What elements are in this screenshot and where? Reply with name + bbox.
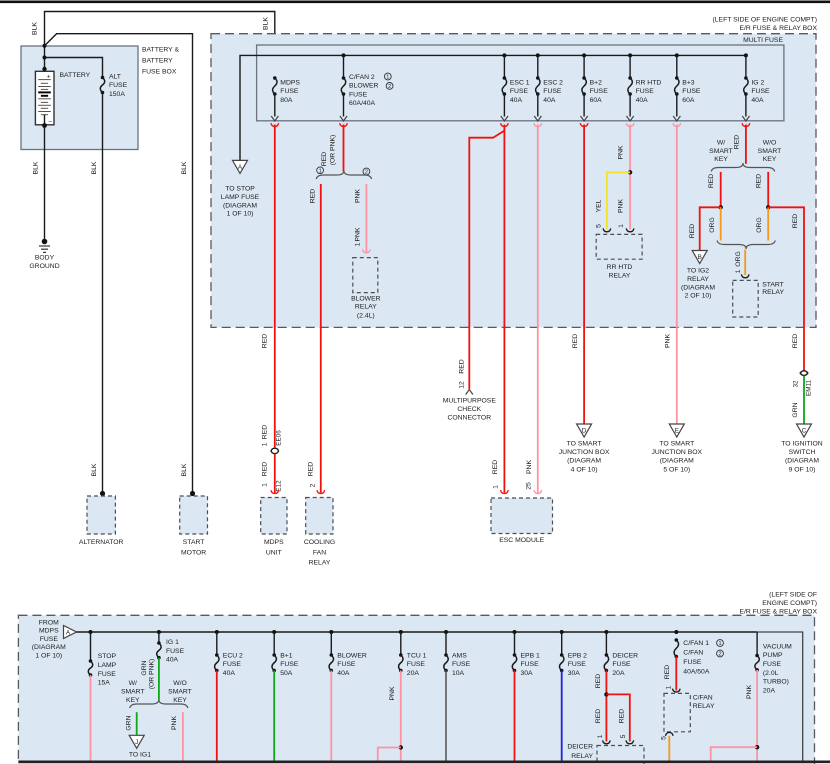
svg-text:150A: 150A — [109, 91, 125, 98]
svg-text:FUSE: FUSE — [683, 659, 702, 666]
svg-text:START: START — [762, 281, 784, 288]
svg-text:C: C — [802, 428, 807, 435]
svg-text:GRN: GRN — [126, 715, 133, 730]
wire RED: deicer fuse to deicer relay — [605, 671, 607, 742]
svg-text:KEY: KEY — [763, 156, 777, 163]
svg-text:ESC 1: ESC 1 — [510, 80, 530, 87]
svg-text:C/FAN: C/FAN — [693, 695, 713, 702]
svg-text:LAMP FUSE: LAMP FUSE — [221, 194, 260, 201]
box: DEICER RELAY — [597, 746, 644, 764]
svg-text:E/R FUSE & RELAY BOX: E/R FUSE & RELAY BOX — [739, 25, 817, 32]
svg-text:5 OF 10): 5 OF 10) — [663, 466, 690, 473]
svg-text:FROM: FROM — [39, 620, 59, 627]
svg-text:(DIAGRAM: (DIAGRAM — [567, 458, 601, 465]
svg-text:2: 2 — [310, 483, 317, 487]
svg-text:ALT: ALT — [109, 74, 121, 81]
wire ORG: w/o smart key to start relay — [767, 207, 769, 240]
fuse: B+3 FUSE 60A — [676, 55, 678, 78]
svg-text:GROUND: GROUND — [29, 263, 59, 270]
wire PNK: w/o smart key — [182, 712, 184, 761]
fuse: TCU 1 FUSE 20A — [400, 632, 402, 655]
connector A: to stop lamp fuse — [233, 160, 248, 173]
wire RED: to IG2 relay — [700, 207, 721, 250]
svg-text:2: 2 — [718, 652, 721, 658]
svg-text:SMART: SMART — [709, 148, 733, 155]
svg-text:40A: 40A — [543, 97, 556, 104]
box: COOLING FAN RELAY — [306, 498, 333, 535]
svg-text:W/O: W/O — [763, 140, 777, 147]
connector E: to smart junction box — [669, 424, 684, 437]
svg-text:FUSE: FUSE — [763, 661, 782, 668]
svg-text:C/FAN 2: C/FAN 2 — [349, 74, 375, 81]
svg-text:1: 1 — [493, 485, 500, 489]
svg-text:1: 1 — [735, 269, 742, 273]
connector D: to smart junction box — [577, 424, 592, 437]
svg-text:ESC MODULE: ESC MODULE — [499, 537, 544, 544]
svg-text:BLK: BLK — [181, 161, 188, 174]
svg-text:TO IG2: TO IG2 — [687, 268, 709, 275]
svg-text:BATTERY &: BATTERY & — [142, 47, 179, 54]
svg-text:TO STOP: TO STOP — [225, 186, 255, 193]
wire: bottom border line — [18, 760, 830, 763]
svg-text:FUSE: FUSE — [751, 88, 770, 95]
wire PNK: RR HTD fuse to relay — [629, 125, 631, 230]
svg-text:ORG: ORG — [709, 217, 716, 232]
wire RED: w/ smart key branch — [720, 172, 722, 207]
svg-text:FUSE: FUSE — [452, 661, 471, 668]
svg-text:START: START — [183, 539, 205, 546]
fuse: MDPS FUSE 80A — [273, 76, 277, 80]
fuse: AMS FUSE 10A — [445, 632, 447, 655]
wire BLK: battery feed to multifuse — [45, 12, 275, 79]
box: E/R fuse & relay box (bottom) — [18, 615, 814, 764]
fuse: DEICER FUSE 20A — [605, 632, 607, 655]
label: C/FAN 2 circled options — [384, 73, 391, 80]
svg-text:FUSE: FUSE — [682, 88, 701, 95]
svg-text:(2.0L: (2.0L — [763, 670, 779, 677]
svg-text:(LEFT SIDE OF: (LEFT SIDE OF — [769, 592, 817, 599]
fuse: ESC 2 FUSE 40A — [537, 55, 539, 78]
box: START RELAY — [733, 280, 759, 317]
svg-text:FAN: FAN — [313, 549, 326, 556]
svg-text:EE06: EE06 — [276, 430, 283, 446]
box: VACUUM PUMP FUSE (2.0L TURBO) — [757, 632, 803, 762]
svg-text:RED: RED — [492, 460, 499, 474]
box: RR HTD RELAY — [596, 234, 642, 259]
wire RED: branch 1 to cooling fan relay — [320, 184, 322, 493]
svg-text:ORG: ORG — [756, 217, 763, 232]
fuse: BLOWER FUSE 40A — [330, 632, 332, 655]
svg-text:(DIAGRAM: (DIAGRAM — [32, 644, 66, 651]
svg-text:TO IGNITION: TO IGNITION — [781, 440, 823, 447]
svg-text:1: 1 — [597, 734, 604, 738]
svg-text:MDPS: MDPS — [264, 539, 284, 546]
wire RED: to ignition switch EM11 — [768, 207, 804, 370]
svg-text:1: 1 — [718, 641, 721, 647]
svg-text:1: 1 — [262, 442, 269, 446]
svg-text:W/: W/ — [129, 680, 137, 687]
svg-text:LAMP: LAMP — [98, 662, 117, 669]
svg-text:RED: RED — [262, 425, 269, 439]
svg-text:MULTI FUSE: MULTI FUSE — [743, 37, 783, 44]
box: MULTI FUSE — [257, 45, 784, 121]
svg-text:BLK: BLK — [32, 22, 39, 35]
svg-text:RED: RED — [595, 709, 602, 723]
svg-text:COOLING: COOLING — [304, 539, 335, 546]
svg-text:FUSE: FUSE — [590, 88, 609, 95]
svg-text:30A: 30A — [568, 670, 581, 677]
svg-text:(OR PNK): (OR PNK) — [330, 135, 337, 166]
wire GRN: to ignition switch — [803, 376, 805, 424]
svg-text:50A: 50A — [280, 670, 293, 677]
svg-text:PNK: PNK — [355, 227, 362, 241]
svg-text:5: 5 — [595, 224, 602, 228]
svg-text:FUSE: FUSE — [337, 661, 356, 668]
fuse: C/FAN 1 C/FAN FUSE 40A/50A — [675, 638, 679, 642]
svg-text:20A: 20A — [407, 670, 420, 677]
svg-text:KEY: KEY — [126, 697, 140, 704]
svg-text:1: 1 — [386, 75, 389, 81]
svg-text:20A: 20A — [763, 687, 776, 694]
svg-text:FUSE: FUSE — [98, 671, 117, 678]
svg-text:PNK: PNK — [618, 145, 625, 159]
svg-text:9 OF 10): 9 OF 10) — [789, 466, 816, 473]
wire GRN: IG1 smart key split — [158, 658, 160, 700]
svg-text:RELAY: RELAY — [687, 276, 709, 283]
svg-text:1: 1 — [319, 168, 322, 174]
box: BLOWER RELAY (2.4L) — [353, 258, 378, 293]
wire RED: c/fan fuse to c/fan relay — [675, 657, 677, 691]
svg-text:(DIAGRAM: (DIAGRAM — [223, 202, 257, 209]
wire RED: w/o smart key branch — [767, 172, 769, 207]
svg-text:CHECK: CHECK — [457, 406, 481, 413]
svg-text:STOP: STOP — [98, 653, 117, 660]
svg-text:BLK: BLK — [33, 161, 40, 174]
svg-text:RED: RED — [792, 214, 799, 228]
svg-text:PNK: PNK — [526, 460, 533, 474]
svg-text:PNK: PNK — [746, 685, 753, 699]
svg-text:(2.4L): (2.4L) — [357, 312, 375, 319]
svg-text:PUMP: PUMP — [763, 652, 783, 659]
svg-text:FUSE: FUSE — [280, 661, 299, 668]
svg-text:EM11: EM11 — [806, 380, 813, 396]
svg-text:RED: RED — [321, 152, 328, 166]
svg-text:1: 1 — [355, 242, 362, 246]
wire: top border line — [0, 0, 830, 3]
svg-text:FUSE: FUSE — [510, 88, 529, 95]
svg-text:BLOWER: BLOWER — [349, 83, 379, 90]
svg-text:RED: RED — [595, 674, 602, 688]
connector J: to IG1 — [129, 735, 144, 748]
svg-text:IG 1: IG 1 — [166, 639, 179, 646]
svg-text:2: 2 — [388, 84, 391, 90]
svg-text:40A: 40A — [510, 97, 523, 104]
svg-text:5: 5 — [620, 734, 627, 738]
svg-text:IG 2: IG 2 — [751, 80, 764, 87]
box: ALTERNATOR — [87, 496, 115, 534]
svg-text:KEY: KEY — [173, 697, 187, 704]
svg-text:W/: W/ — [717, 140, 725, 147]
svg-text:MOTOR: MOTOR — [181, 549, 206, 556]
svg-text:MDPS: MDPS — [39, 628, 59, 635]
fuse: IG 2 FUSE 40A — [744, 76, 748, 80]
svg-text:TO IG1: TO IG1 — [129, 751, 151, 758]
svg-text:GRN: GRN — [141, 660, 148, 675]
svg-text:JUNCTION BOX: JUNCTION BOX — [559, 449, 610, 456]
wire GRN: to IG1 — [136, 712, 138, 735]
wire RED: C/FAN2 fuse with split — [343, 125, 345, 172]
svg-text:FUSE: FUSE — [521, 661, 540, 668]
svg-text:RELAY: RELAY — [355, 304, 377, 311]
svg-text:E/R FUSE & RELAY BOX: E/R FUSE & RELAY BOX — [739, 609, 817, 616]
svg-text:32: 32 — [793, 380, 800, 388]
svg-text:60A: 60A — [590, 97, 603, 104]
svg-text:BODY: BODY — [35, 255, 55, 262]
svg-text:RED: RED — [689, 224, 696, 238]
svg-text:12: 12 — [459, 381, 466, 389]
svg-text:(OR PNK): (OR PNK) — [148, 659, 155, 690]
svg-text:RELAY: RELAY — [571, 753, 593, 760]
svg-text:1 OF 10): 1 OF 10) — [35, 652, 62, 659]
svg-text:B+1: B+1 — [280, 653, 293, 660]
fuse: EPB 2 FUSE 30A — [561, 632, 563, 655]
svg-text:1: 1 — [665, 685, 672, 689]
svg-text:10A: 10A — [452, 670, 465, 677]
wire PNK: branch 2 to blower relay — [365, 184, 367, 252]
svg-text:MDPS: MDPS — [280, 80, 300, 87]
connector B: to IG2 relay — [692, 251, 707, 264]
connector EE06 in-line — [271, 448, 279, 451]
svg-text:RED: RED — [310, 189, 317, 203]
box: C/FAN RELAY — [664, 693, 690, 731]
svg-text:PNK: PNK — [665, 334, 672, 348]
wire RED: IG2 fuse smart key split — [745, 125, 747, 164]
svg-text:SMART: SMART — [121, 689, 145, 696]
wire: multifuse bus — [240, 55, 746, 160]
svg-text:B+2: B+2 — [590, 80, 603, 87]
svg-text:J: J — [135, 739, 138, 746]
svg-text:DEICER: DEICER — [567, 744, 593, 751]
svg-text:RED: RED — [708, 174, 715, 188]
wire PNK: B+3 fuse to smart junction box — [676, 125, 678, 425]
svg-text:RELAY: RELAY — [693, 703, 715, 710]
svg-text:FUSE: FUSE — [349, 91, 368, 98]
svg-text:B: B — [698, 254, 702, 261]
svg-text:ESC 2: ESC 2 — [543, 80, 563, 87]
svg-text:C/FAN: C/FAN — [683, 650, 703, 657]
svg-text:TO SMART: TO SMART — [659, 440, 694, 447]
wire: bottom bus — [77, 631, 758, 633]
svg-text:PNK: PNK — [171, 716, 178, 730]
ground: body ground — [42, 239, 48, 245]
svg-text:FUSE: FUSE — [109, 82, 128, 89]
wire ORG: merged start relay feed — [717, 241, 775, 250]
svg-text:W/O: W/O — [173, 680, 187, 687]
svg-text:AMS: AMS — [452, 653, 467, 660]
svg-text:RED: RED — [792, 334, 799, 348]
wire BLK: battery to ALT fuse and alternator — [45, 58, 103, 78]
svg-text:YEL: YEL — [595, 199, 602, 212]
svg-text:RED: RED — [618, 709, 625, 723]
svg-text:(DIAGRAM: (DIAGRAM — [785, 458, 819, 465]
svg-text:BLK: BLK — [91, 463, 98, 476]
svg-text:−: − — [48, 118, 52, 125]
svg-text:MULTIPURPOSE: MULTIPURPOSE — [443, 398, 497, 405]
fuse: ESC 1 FUSE 40A — [503, 55, 505, 78]
svg-text:BLOWER: BLOWER — [351, 295, 381, 302]
svg-text:1 OF 10): 1 OF 10) — [227, 211, 254, 218]
wire RED: B+2 fuse to smart junction box — [583, 125, 585, 425]
svg-text:(LEFT SIDE OF ENGINE COMPT): (LEFT SIDE OF ENGINE COMPT) — [713, 16, 817, 23]
svg-text:FUSE BOX: FUSE BOX — [142, 69, 177, 76]
fuse: VACUUM PUMP FUSE wire PNK — [756, 632, 758, 656]
svg-text:BLOWER: BLOWER — [337, 653, 367, 660]
svg-text:BATTERY: BATTERY — [142, 58, 173, 65]
svg-text:TURBO): TURBO) — [763, 679, 789, 686]
svg-text:RED: RED — [734, 135, 741, 149]
svg-text:FUSE: FUSE — [612, 661, 631, 668]
svg-text:RED: RED — [664, 665, 671, 679]
svg-text:1: 1 — [262, 483, 269, 487]
svg-text:40A: 40A — [337, 670, 350, 677]
wire BLK: battery to start motor — [45, 34, 193, 494]
svg-text:TO SMART: TO SMART — [567, 440, 602, 447]
svg-text:PNK: PNK — [355, 189, 362, 203]
fuse: C/FAN 2 BLOWER FUSE 60A/40A — [343, 55, 345, 78]
svg-text:20A: 20A — [612, 670, 625, 677]
svg-text:TCU 1: TCU 1 — [407, 653, 427, 660]
svg-text:ALTERNATOR: ALTERNATOR — [79, 539, 124, 546]
svg-text:60A/40A: 60A/40A — [349, 100, 376, 107]
svg-text:25: 25 — [526, 482, 533, 490]
svg-text:E: E — [675, 428, 679, 435]
svg-text:15A: 15A — [98, 680, 111, 687]
svg-text:UNIT: UNIT — [266, 549, 282, 556]
svg-text:RELAY: RELAY — [762, 289, 784, 296]
fuse: B+2 FUSE 60A — [583, 55, 585, 78]
svg-text:FUSE: FUSE — [568, 661, 587, 668]
fuse: IG 1 FUSE 40A — [158, 632, 160, 643]
connector C: to ignition switch — [797, 424, 812, 437]
svg-text:FUSE: FUSE — [223, 661, 242, 668]
svg-text:1: 1 — [618, 224, 625, 228]
svg-text:FUSE: FUSE — [636, 88, 655, 95]
battery & battery fuse box — [21, 46, 138, 150]
svg-text:BLK: BLK — [91, 161, 98, 174]
fuse: EPB 1 FUSE 30A — [514, 632, 516, 655]
wire PNK: TCU1 down with branch — [400, 671, 402, 762]
svg-text:40A: 40A — [751, 97, 764, 104]
svg-text:SMART: SMART — [168, 689, 192, 696]
box: ESC MODULE — [491, 498, 553, 534]
fuse: STOP LAMP FUSE 15A + wire PNK — [90, 632, 92, 661]
svg-text:FUSE: FUSE — [280, 88, 299, 95]
svg-text:B+3: B+3 — [682, 80, 695, 87]
box: MDPS UNIT — [261, 498, 287, 535]
svg-text:EPB 1: EPB 1 — [521, 653, 540, 660]
svg-text:VACUUM: VACUUM — [763, 643, 792, 650]
svg-text:4 OF 10): 4 OF 10) — [571, 466, 598, 473]
svg-text:RELAY: RELAY — [309, 559, 331, 566]
svg-text:2 OF 10): 2 OF 10) — [685, 293, 712, 300]
svg-text:D: D — [582, 428, 587, 435]
svg-text:BLK: BLK — [263, 17, 270, 30]
svg-text:FUSE: FUSE — [407, 661, 426, 668]
svg-text:60A: 60A — [682, 97, 695, 104]
wire RED: ESC1 fuse to ESC module and check connector — [469, 131, 504, 389]
svg-text:PNK: PNK — [389, 686, 396, 700]
svg-text:RED: RED — [459, 359, 466, 373]
svg-text:JUNCTION BOX: JUNCTION BOX — [651, 449, 702, 456]
svg-text:80A: 80A — [280, 97, 293, 104]
svg-text:EPB 2: EPB 2 — [568, 653, 587, 660]
svg-text:RELAY: RELAY — [609, 272, 631, 279]
svg-text:PNK: PNK — [618, 199, 625, 213]
svg-text:GRN: GRN — [792, 402, 799, 417]
svg-text:CONNECTOR: CONNECTOR — [447, 414, 491, 421]
svg-text:40A: 40A — [223, 670, 236, 677]
wire RED: MDPS fuse to MDPS unit — [274, 125, 276, 449]
svg-text:KEY: KEY — [714, 156, 728, 163]
svg-text:FUSE: FUSE — [543, 88, 562, 95]
svg-text:RED: RED — [308, 462, 315, 476]
svg-text:ECU 2: ECU 2 — [223, 653, 243, 660]
svg-text:RED: RED — [262, 334, 269, 348]
svg-text:30A: 30A — [521, 670, 534, 677]
svg-text:RED: RED — [572, 334, 579, 348]
svg-text:RR HTD: RR HTD — [636, 80, 662, 87]
fuse: ALT FUSE 150A — [101, 76, 105, 80]
svg-text:DEICER: DEICER — [612, 653, 638, 660]
svg-text:FUSE: FUSE — [166, 648, 185, 655]
wire BLK: battery to body ground — [44, 126, 46, 242]
svg-text:RED: RED — [262, 462, 269, 476]
svg-text:ENGINE COMPT): ENGINE COMPT) — [762, 600, 817, 607]
svg-text:(DIAGRAM: (DIAGRAM — [681, 284, 715, 291]
svg-text:SMART: SMART — [758, 148, 782, 155]
svg-text:5: 5 — [660, 736, 667, 740]
wire ORG: w/ smart key to start relay — [720, 207, 722, 240]
svg-text:40A: 40A — [166, 657, 179, 664]
box: E/R fuse & relay box (top) — [211, 34, 816, 328]
svg-text:E12: E12 — [276, 480, 283, 492]
svg-text:C/FAN 1: C/FAN 1 — [683, 640, 709, 647]
wire PNK: ESC2 fuse to ESC module — [537, 125, 539, 493]
svg-text:(DIAGRAM: (DIAGRAM — [660, 458, 694, 465]
fuse: B+1 FUSE 50A — [273, 632, 275, 655]
fuse: ECU 2 FUSE 40A — [216, 632, 218, 655]
connector EM11 in-line — [800, 371, 808, 374]
svg-text:FUSE: FUSE — [40, 636, 59, 643]
wire ORG: c/fan relay pin 5 — [666, 733, 674, 736]
battery B1 — [44, 69, 46, 80]
fuse: RR HTD FUSE 40A — [629, 55, 631, 78]
svg-text:RED: RED — [756, 174, 763, 188]
svg-text:BATTERY: BATTERY — [60, 72, 91, 79]
svg-text:SWITCH: SWITCH — [789, 449, 816, 456]
svg-text:ORG: ORG — [735, 251, 742, 266]
svg-text:RR HTD: RR HTD — [607, 264, 633, 271]
box: START MOTOR — [180, 496, 208, 534]
wire YEL: RR HTD relay pin 5 — [607, 172, 630, 229]
svg-text:BLK: BLK — [181, 463, 188, 476]
svg-text:40A: 40A — [636, 97, 649, 104]
svg-text:40A/50A: 40A/50A — [683, 669, 710, 676]
